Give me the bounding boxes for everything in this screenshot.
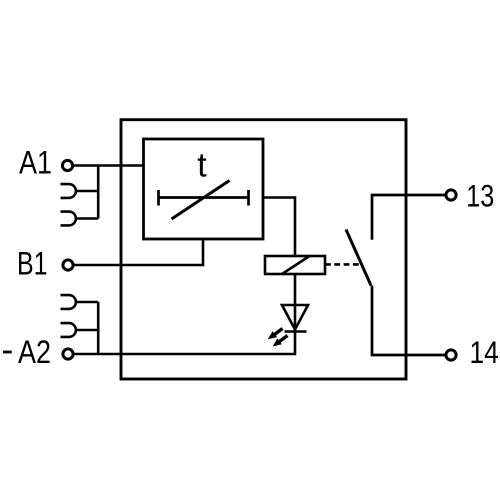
terminal B1 [63,260,73,270]
terminal A2 [63,349,73,359]
LED light arrows [268,329,288,347]
svg-text:t: t [197,147,207,185]
terminal 13 [446,190,456,200]
plug contact A1 lower [61,212,99,226]
wire plug bus A2 [97,302,100,354]
wire A1 to timer box [73,164,144,167]
time setting diagonal [172,181,230,220]
time axis with end ticks [159,190,249,206]
svg-text:A2: A2 [18,334,51,370]
wire timer box to relay coil [263,198,295,257]
dashed actuation link [325,263,361,266]
wire plug bus A1 [97,166,100,219]
timing element box [144,139,264,239]
wire terminal 13 to contact [372,195,446,240]
svg-text:14: 14 [470,334,499,370]
wire contact to terminal 14 [372,286,446,356]
terminal A1 [62,160,72,170]
svg-text:B1: B1 [17,246,48,282]
wire relay coil through LED to A2 [74,274,295,354]
LED D1 [282,305,308,332]
svg-text:13: 13 [466,178,494,214]
plug contact A2 lower [61,323,99,337]
relay coil K1 [265,256,325,274]
plug contact A1 upper [61,184,99,198]
plug contact A2 upper [61,295,99,309]
svg-text:A1: A1 [19,145,52,181]
wire B1 to timer box bottom [74,239,203,265]
NO contact blade [346,230,371,286]
minus sign [3,351,12,354]
device outline box [121,120,406,379]
terminal 14 [446,350,456,360]
